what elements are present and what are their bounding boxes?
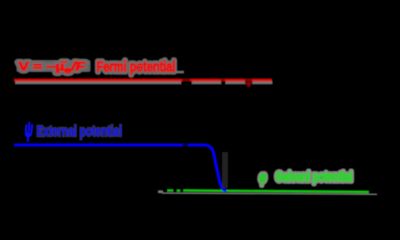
svg-text:φ: φ: [259, 170, 267, 186]
svg-text:Fermi potential: Fermi potential: [97, 60, 176, 76]
notch at x186 (black arrow crossing): [181, 81, 192, 88]
svg-text:Galvani potential: Galvani potential: [276, 170, 353, 184]
gray stub at green line start: [158, 190, 163, 193]
red line (Fermi potential level): [14, 79, 272, 81]
notch on blue line at x185: [183, 143, 188, 147]
green line dash 1: [167, 189, 174, 192]
green line (Galvani potential level): [183, 190, 369, 192]
svg-text:ψ: ψ: [25, 119, 34, 142]
formula halo band fill: [17, 60, 91, 72]
green line dash 2: [177, 189, 181, 192]
blue line (external potential): [14, 145, 227, 190]
faint gray column right of blue descent (surface marker halo): [222, 152, 228, 188]
svg-text:External potential: External potential: [37, 123, 123, 140]
gray halo under green line: [162, 192, 377, 195]
notch halo blob above red line: [176, 71, 184, 74]
dark red arrowhead below red line at x248: [245, 81, 253, 87]
red line halo: [15, 81, 273, 84]
notch at x222: [221, 81, 226, 86]
